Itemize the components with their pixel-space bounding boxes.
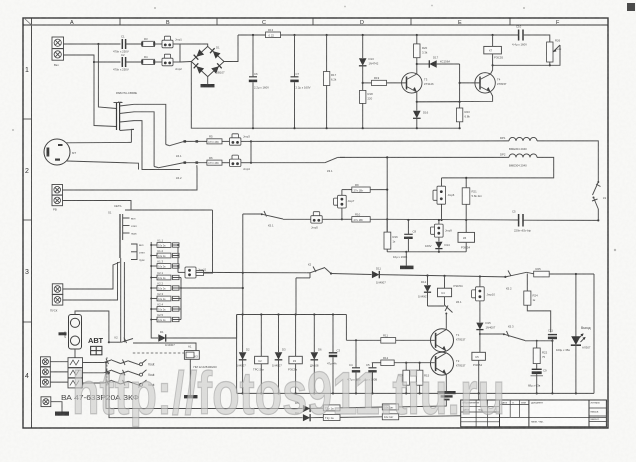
resistor R24	[524, 274, 551, 333]
wire a2 down to S2	[94, 62, 117, 127]
jumper Jmp6	[433, 178, 455, 220]
terminal ПУСК	[50, 284, 63, 313]
box F2	[382, 399, 446, 410]
zener D14	[425, 237, 450, 252]
diode D3	[272, 315, 286, 395]
transistor T1 KT815	[431, 328, 467, 352]
choke DP2	[442, 152, 554, 178]
box F4	[382, 393, 478, 419]
resistor R18	[360, 90, 374, 129]
relay K3 coil	[288, 315, 302, 395]
relay K7 РЭС55	[484, 35, 504, 66]
transistor T2 KT815	[431, 352, 467, 375]
ladder row К2.2	[150, 282, 182, 291]
PE terminal	[41, 397, 69, 416]
wire S1 right drop	[204, 210, 213, 273]
wire T3 emitter to T4 base column	[417, 101, 460, 103]
resistor R19	[363, 76, 406, 86]
box F3	[323, 415, 382, 421]
wire a1 down to S2	[98, 44, 116, 109]
terminal РВ	[52, 185, 63, 212]
wire T4 emitter	[417, 92, 493, 102]
diode D15	[476, 321, 495, 352]
capacitor C8	[393, 219, 417, 259]
switch S2 РАБОТА-СВЯЗЬ	[114, 91, 138, 131]
wire to bridge	[180, 44, 208, 47]
capacitor C4	[347, 340, 361, 394]
resistor R10	[342, 212, 388, 222]
resistor R25	[527, 267, 594, 277]
relay K2 coil	[253, 315, 268, 395]
jumper Jmp10	[472, 277, 496, 323]
bottom wire w1	[106, 363, 303, 409]
wire ПУСК a	[63, 262, 120, 289]
bridge rectifier D1 DB107	[191, 46, 225, 77]
wire mic a	[66, 141, 131, 143]
vertical K5.1 feed	[242, 214, 244, 315]
contact К2.1 lamp feed	[108, 336, 196, 351]
diode D5	[295, 401, 323, 412]
ladder row К1.2	[150, 249, 179, 258]
breaker ВА 47-63 pole 1	[68, 358, 83, 368]
switch S1 СЕТЬ	[108, 204, 213, 262]
wire S2c	[134, 121, 180, 170]
capacitor C11	[548, 329, 570, 395]
box F1	[323, 405, 382, 411]
resistor R17	[323, 35, 336, 129]
resistor R13	[266, 28, 519, 38]
breaker pole 3	[68, 378, 83, 388]
breaker trip link dashed	[106, 357, 108, 386]
capacitor C1	[113, 35, 142, 54]
resistor R15	[416, 362, 429, 395]
switch K1	[592, 181, 607, 220]
ladder row К1.3	[150, 260, 179, 269]
capacitor C9	[528, 369, 547, 395]
resistor R21	[462, 177, 482, 220]
vertical from K3.1 node	[386, 157, 388, 232]
resistor R12	[372, 356, 435, 366]
rail row2	[387, 218, 518, 221]
resistor R6	[207, 156, 230, 165]
jumper Jmp1	[162, 36, 182, 48]
wire gnd row2	[387, 251, 466, 253]
wire K7 bottom to pot bottom	[493, 64, 550, 66]
resistor R20	[414, 35, 428, 74]
contact K5.1	[243, 211, 283, 228]
contact К5.3	[480, 325, 554, 342]
wire K3.1 to DP2	[340, 156, 509, 158]
ground row2	[400, 252, 414, 269]
wire mic b	[67, 161, 139, 170]
ground under bridge	[201, 77, 215, 88]
resistor R22	[533, 341, 547, 369]
capacitor C5 series	[512, 210, 598, 233]
ladder row К2.3	[150, 292, 181, 301]
node jmp3-jmp4 tie	[250, 141, 252, 162]
ground rail bottom	[237, 392, 594, 394]
diode D6	[310, 315, 322, 395]
scan speck top right	[627, 3, 635, 11]
diode D2	[236, 315, 250, 395]
dashed link to K3	[133, 352, 185, 354]
relay rail	[237, 314, 347, 316]
relay K5 РЭС54	[472, 352, 486, 394]
right bus	[593, 274, 595, 393]
capacitor C6	[249, 35, 269, 129]
title block	[461, 400, 607, 427]
jumper Jmp4	[230, 155, 252, 171]
contact К6.1	[445, 300, 462, 328]
resistor ladder K1.x K2.x	[151, 242, 178, 330]
left drop to ground rail	[236, 315, 238, 394]
wire S2b to K4.2	[134, 112, 154, 167]
dust specks	[154, 7, 156, 9]
wire to DP1	[251, 140, 509, 143]
wire L1	[64, 43, 121, 45]
diode D17 KC156A	[417, 56, 460, 68]
jumper Jmp3	[230, 134, 252, 145]
indicator lamps 220В	[59, 311, 109, 358]
resistor R16	[384, 219, 398, 252]
diode D4	[295, 411, 323, 421]
microphone connector MT	[44, 139, 76, 165]
contactor K3 ПМ12	[184, 345, 217, 399]
diode D11	[331, 267, 505, 285]
wire S1 down	[120, 258, 122, 342]
relay K4 РЭС54	[438, 276, 463, 305]
transistor T4 KT815	[475, 73, 507, 93]
resistor R11	[346, 315, 434, 344]
resistor R9	[342, 183, 388, 193]
jumper Jmp11	[178, 266, 307, 278]
wire T2 emitter to chassis	[445, 374, 447, 391]
diode D12	[418, 276, 445, 307]
contact К5.2	[504, 271, 526, 291]
wire T4 collector	[491, 65, 493, 74]
jumper Jmp9	[431, 219, 453, 237]
contact К2 on rail3	[296, 263, 332, 315]
LED АЛ307 Выход	[549, 274, 591, 395]
wire bridge left down to common rail	[191, 62, 459, 129]
relay K6 РЭС54	[458, 220, 475, 252]
resistor R3	[141, 37, 162, 46]
jumper Jmp7	[334, 190, 355, 221]
resistor R5	[207, 135, 230, 144]
wire D17 node down	[459, 64, 461, 108]
capacitor C7	[290, 35, 310, 129]
diode D16	[413, 92, 429, 129]
bottom wire w2	[109, 373, 303, 418]
wire S2d to mic	[131, 129, 134, 142]
jumper Jmp5	[283, 212, 342, 230]
ladder right bus	[180, 278, 182, 320]
contact K3.1	[325, 157, 345, 173]
capacitor C10 series on rail	[512, 25, 550, 47]
wire N1	[64, 55, 121, 62]
wire to K3.1	[251, 162, 325, 164]
wire S2a to K4.1	[134, 104, 166, 144]
input terminals 3ph	[41, 357, 51, 387]
ladder row К2.4	[150, 303, 181, 312]
breaker output wires with contacts	[83, 359, 155, 367]
zener D13	[359, 35, 379, 90]
contact K4.2	[154, 161, 207, 180]
wire cross tie	[181, 287, 243, 289]
page corner fold	[24, 18, 32, 26]
chassis ground T2	[438, 391, 456, 400]
node a1	[97, 43, 99, 45]
node a2	[93, 61, 95, 63]
resistor R23	[456, 108, 470, 129]
ladder row К2.1	[150, 271, 181, 280]
resistor R4	[141, 55, 162, 64]
jumper Jmp2	[162, 54, 182, 71]
choke DP1	[500, 136, 598, 181]
top rail +V	[238, 34, 266, 36]
contact K4.1	[166, 140, 207, 158]
capacitor C5b	[365, 363, 378, 395]
diode D7 ladder bottom	[151, 315, 236, 347]
wire T4 base	[460, 82, 480, 84]
ladder row К2.5	[150, 313, 181, 322]
wire ПУСК b	[63, 262, 118, 300]
capacitor C2	[113, 53, 142, 72]
wire РВ b	[63, 201, 132, 211]
potentiometer R26	[547, 39, 562, 67]
resistor R14	[398, 363, 410, 395]
terminal block X1 Вкл	[52, 37, 64, 67]
window icon	[91, 346, 102, 354]
breaker pole 2	[68, 368, 83, 378]
wires terminals to breaker	[50, 361, 68, 363]
wire bridge out to top rail	[224, 35, 238, 62]
ladder row К1.1	[150, 239, 179, 248]
transistor T3 KT3126	[402, 73, 434, 93]
node rail1	[252, 34, 254, 36]
wire РВ a	[63, 165, 198, 190]
capacitor C3	[327, 315, 341, 395]
